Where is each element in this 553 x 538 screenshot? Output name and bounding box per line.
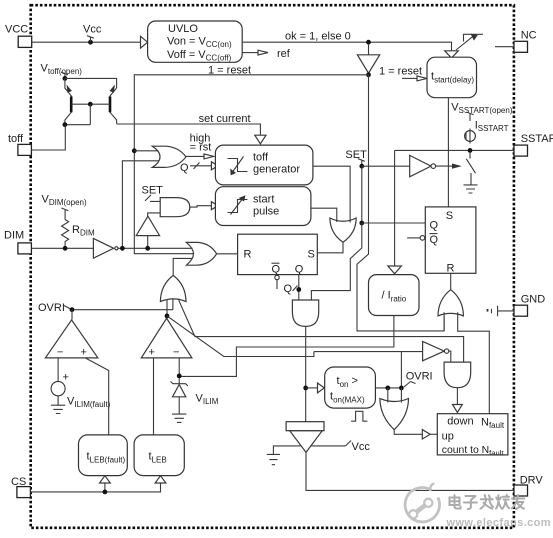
wire reset branch into OR1 top input (134, 150, 158, 152)
wire DIM net to OR-R gate (118, 247, 192, 249)
buffer (up) from DIM wire to AND1 (136, 216, 159, 248)
wire I_ratio output to V_ILIM node (179, 316, 394, 377)
node reset to OR1 junction (132, 148, 137, 153)
OR gate U14 (t_on / OVRI) (380, 388, 409, 430)
driver output stage (286, 422, 324, 453)
label V_DIM(open) with tap (42, 194, 87, 220)
wire AND1 lower input from DIM buffer (148, 213, 161, 216)
wire comp2 output into 3OR input1 (166, 300, 168, 316)
label V_SSTART(open) with tap (451, 102, 513, 121)
pin CS (11, 476, 30, 498)
ground under switch (464, 185, 478, 193)
svg-text:DIM: DIM (4, 230, 24, 242)
wire comp2 minus input down to zener (178, 358, 180, 383)
block fault counter (437, 414, 508, 458)
wire OR2 output to counter up input (394, 430, 437, 439)
block toff generator (215, 145, 313, 185)
svg-text:−: − (57, 346, 63, 358)
inverter making 1=reset (357, 44, 379, 77)
wire start pulse output to OR7 (311, 208, 337, 222)
wire OR1 bottom input from DIM net (122, 161, 158, 249)
OR gate U4 into latch1 R (186, 242, 216, 265)
AND gate U3 (SET and DIM) (160, 198, 190, 217)
svg-text:ref: ref (277, 48, 291, 60)
label Q with tap at toff generator reset input (180, 162, 211, 174)
svg-text:www.elecfans.com: www.elecfans.com (446, 517, 551, 529)
wire SET to switch buffer (362, 165, 410, 167)
pin SSTART (514, 133, 553, 156)
wire comp2 plus input from t_LEB (153, 358, 155, 435)
wire t_start output down to latch2 S (447, 98, 449, 207)
open arrow into toff generator top (255, 135, 266, 144)
node V_toff junction (63, 76, 68, 81)
block t_LEB(fault) (79, 435, 128, 476)
svg-text:pulse: pulse (253, 206, 279, 218)
wire SSTART rail (395, 149, 514, 151)
svg-text:set current: set current (199, 113, 251, 125)
wire VCC to UVLO buffer (32, 41, 141, 43)
watermark url text (446, 517, 551, 529)
wire AND2 output down to driver (305, 326, 307, 421)
wire reset net left and down at x=134 (134, 75, 368, 254)
node latch1 Q junction (296, 287, 301, 292)
label set current (199, 113, 251, 125)
wire OVRI net from comp1 to 3OR (72, 309, 173, 311)
wire mirror top rail (65, 78, 117, 88)
wire OR3 right input from N_fault (458, 312, 490, 414)
svg-text:toff: toff (253, 152, 269, 164)
buffer into start pulse (211, 202, 218, 210)
latch1 Qbar bubble stub (275, 275, 279, 289)
wire SET net jog down to AND2 (311, 223, 361, 300)
label I_SSTART (475, 119, 509, 133)
wire t_on output to OR2 (375, 387, 401, 389)
node mirror diode junction (63, 122, 68, 127)
ground under V_ILIM(fault) (51, 405, 65, 413)
wire OR1 output with open arrow into toff generator (186, 154, 214, 159)
svg-text:+: + (63, 372, 69, 384)
svg-text:VCC: VCC (5, 24, 28, 36)
label Q tap at latch1 output (284, 283, 298, 295)
wire SSTART down to I_ratio input (394, 150, 396, 266)
SET label near buffer (345, 149, 367, 166)
node SSTART junction (468, 148, 473, 153)
pulse icon (351, 411, 367, 421)
label V_toff(open) with tap (41, 62, 83, 78)
label high = rst (190, 133, 212, 154)
wire toff generator output to OR7 (313, 166, 350, 222)
wire OR7 output to latch1 S (317, 242, 343, 253)
current source I_SSTART (465, 129, 476, 144)
node comp1 output junction (70, 307, 75, 312)
svg-text:+: + (81, 346, 87, 358)
wire set current from mirror to toff generator (117, 124, 261, 135)
wire AND1 output to start pulse buffer (190, 206, 212, 207)
resistor R_DIM (62, 220, 95, 249)
switch on SSTART node (436, 153, 476, 185)
node AND2 output to ton buffer junction (303, 386, 308, 391)
buffer with bubble (inverter to AND3) (423, 341, 451, 362)
wire latch2 Q to SET node (362, 222, 426, 224)
wire CS rail (30, 483, 160, 492)
OR gate U2 high=rst (152, 146, 186, 167)
svg-text:SET: SET (345, 149, 367, 161)
label 1 = reset (left) (208, 64, 251, 76)
node SET junction (359, 164, 364, 169)
svg-text:SET: SET (142, 184, 164, 196)
svg-text:OVRI: OVRI (406, 371, 433, 383)
node DIM net junction 1 (120, 246, 125, 251)
label 1 = reset (right) with arrow into t_start (379, 66, 427, 81)
wire 3OR output up into OR4 (173, 258, 192, 275)
node comp2 output junction (165, 314, 170, 319)
buffer into toff generator q input (211, 162, 218, 170)
buffer at UVLO input (141, 36, 148, 48)
transistor Q2 (right PNP of mirror) (110, 85, 117, 124)
watermark logo circle (405, 484, 439, 522)
OR gate U10 (below latch2 R, pointing up) (438, 290, 463, 316)
pin GND (514, 294, 545, 317)
AND gate U8 (latch1 Q and SET, drives driver) (292, 300, 318, 326)
node DIM net junction 2 (145, 246, 150, 251)
wire SET vertical from latch2 Q (361, 166, 363, 223)
node DIM-resistor junction (63, 246, 68, 251)
svg-text:S: S (308, 248, 315, 260)
svg-text:Vcc: Vcc (83, 24, 102, 36)
wire OR3 left input from reset H1 (443, 312, 445, 331)
node junction on ok wire above inverter (366, 40, 371, 45)
label OVRI (left) with tap (38, 302, 71, 314)
block t_on > t_on(MAX) (325, 367, 376, 408)
wire driver output to DRV pin (306, 452, 514, 490)
block start pulse (215, 187, 311, 226)
svg-text:Vcc: Vcc (352, 441, 371, 453)
latch2 Qbar bubble and stub (407, 236, 425, 241)
wire UVLO ok output (242, 42, 451, 51)
svg-text:Q: Q (430, 220, 439, 232)
label OVRI (right) with tap (404, 371, 433, 388)
wire 3OR input3 stub (178, 299, 180, 301)
node V_ILIM junction (177, 374, 182, 379)
UVLO ref output (242, 48, 291, 60)
voltage source V_ILIM(fault) (51, 358, 69, 405)
SR latch U6 (238, 234, 318, 275)
node CS junction (103, 490, 108, 495)
comparator U11 (fault) (45, 310, 98, 359)
buffer driving SSTART discharge switch (410, 155, 436, 176)
wire OVRI net into 3OR input2 (172, 299, 174, 310)
block t_LEB (134, 435, 184, 476)
svg-text:UVLO: UVLO (168, 23, 198, 35)
buffer into t_on block (306, 383, 325, 393)
wire DIM rail (31, 247, 93, 249)
svg-text:down: down (447, 416, 473, 428)
svg-text:CS: CS (11, 476, 26, 488)
SR latch U9 (right) (425, 207, 476, 274)
wire toff pin up to mirror (31, 125, 65, 150)
wire mirror base link (65, 102, 110, 125)
soft-start step icon above NC (456, 34, 483, 50)
svg-text:GND: GND (521, 294, 546, 306)
svg-text:DRV: DRV (520, 475, 544, 487)
svg-text:= rst: = rst (190, 142, 212, 154)
svg-text:Q: Q (284, 283, 293, 295)
zener V_ILIM (171, 382, 189, 414)
UVLO block U1 (148, 21, 243, 63)
wire latch2 R from OR3 (450, 273, 452, 289)
pin NC (514, 30, 537, 53)
AND gate U13 (into counter) (444, 362, 471, 388)
node Vcc tap on VCC wire (83, 24, 102, 45)
pin VCC (5, 24, 32, 48)
Vcc tap on driver (312, 441, 371, 453)
wire H_b OVRI row to bubble buffer (314, 351, 423, 353)
pin DIM (4, 230, 31, 254)
pin DRV (514, 475, 543, 497)
svg-text:toff: toff (8, 133, 24, 145)
svg-text:Q: Q (430, 234, 439, 246)
pin toff (8, 133, 31, 155)
label V_ILIM(fault) (67, 396, 111, 410)
SET label with tap at AND1 input (142, 184, 164, 201)
svg-text:OVRI: OVRI (38, 302, 65, 314)
svg-text:+: + (149, 346, 155, 358)
open arrow into t_LEB(fault) (100, 476, 111, 483)
svg-text:start: start (253, 194, 274, 206)
GND pin internal symbol (487, 306, 514, 317)
wire 3OR input3 diagonal to H2 (179, 301, 195, 337)
wire comp2 output diagonal to H356 (167, 316, 314, 357)
svg-text:generator: generator (253, 164, 300, 176)
OR gate U5 (3-input, pointing up) (160, 275, 186, 301)
wire into NC pin (495, 46, 514, 48)
open arrow into t_LEB (155, 476, 166, 483)
svg-text:1 = reset: 1 = reset (379, 66, 422, 78)
svg-text:Q: Q (295, 264, 304, 276)
svg-text:ok = 1, else 0: ok = 1, else 0 (285, 30, 351, 42)
open arrow into t_start top (445, 51, 459, 58)
svg-text:Q: Q (272, 264, 281, 276)
comparator U12 (current limit) (141, 318, 192, 358)
svg-text:NC: NC (521, 30, 537, 42)
ground under zener (172, 414, 186, 422)
block / I_ratio (369, 275, 420, 316)
node t_on OR2 junction (385, 386, 390, 391)
wire AND3 output down with open arrow into counter (453, 388, 463, 413)
svg-text:R: R (447, 262, 455, 274)
transistor Q1 (left PNP of mirror) (65, 78, 72, 124)
ground on driver left (267, 446, 301, 465)
svg-text:S: S (446, 210, 453, 222)
wire latch1 Q output down to AND2 (298, 275, 300, 300)
inverter on DIM input (93, 238, 118, 258)
label V_ILIM (196, 393, 219, 407)
label ok = 1, else 0 (285, 30, 351, 42)
svg-text:Q: Q (180, 162, 189, 174)
watermark text dian zi fa shao you (drawn strokes) (450, 495, 525, 509)
svg-text:up: up (442, 431, 454, 443)
node SET to latch2 Q junction (359, 221, 364, 226)
OR gate U7 (toff/start-pulse into latch1 S) (330, 218, 356, 242)
node OVRI OR2 junction (399, 386, 404, 391)
svg-text:SSTART: SSTART (521, 133, 553, 145)
wire comp1 plus input from t_LEB(fault) (85, 358, 109, 435)
wire OVRI branch down to OR2 (400, 352, 402, 388)
wire H2 from 3OR diag to AND3 (195, 337, 464, 363)
svg-text:−: − (173, 346, 179, 358)
open arrow into I_ratio top (388, 266, 401, 274)
wire OR4 output to latch1 R (217, 253, 238, 255)
block t_start(delay) (427, 57, 477, 97)
wire reset net jog down to H1 (357, 75, 444, 331)
svg-text:R: R (244, 248, 252, 260)
